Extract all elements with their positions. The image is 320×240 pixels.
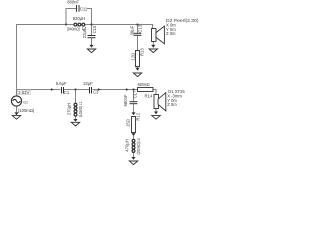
svg-text:22µF: 22µF: [82, 28, 87, 38]
svg-text:39µF: 39µF: [129, 25, 134, 35]
svg-text:R14: R14: [145, 93, 153, 98]
svg-text:C13: C13: [138, 24, 143, 32]
svg-text:(100mΩ): (100mΩ): [18, 108, 35, 113]
svg-text:(840mΩ): (840mΩ): [67, 27, 80, 32]
svg-text:680nF: 680nF: [67, 0, 79, 5]
svg-text:R12: R12: [135, 112, 140, 120]
svg-text:820µH: 820µH: [73, 16, 85, 21]
svg-text:C1: C1: [64, 90, 70, 95]
svg-text:470µH: 470µH: [125, 139, 130, 151]
svg-text:22µF: 22µF: [83, 81, 93, 86]
svg-text:(280mΩ) L6: (280mΩ) L6: [136, 138, 141, 155]
svg-text:C11: C11: [80, 7, 88, 12]
svg-text:C17: C17: [133, 90, 138, 98]
svg-text:15Ω: 15Ω: [126, 119, 131, 127]
svg-text:12Ω: 12Ω: [130, 53, 135, 61]
svg-text:C3: C3: [93, 90, 99, 95]
svg-text:(440mΩ) L1: (440mΩ) L1: [78, 101, 83, 117]
svg-text:Z 0m: Z 0m: [167, 102, 177, 107]
svg-text:270µH: 270µH: [67, 103, 72, 115]
svg-text:Z 0m: Z 0m: [166, 31, 176, 36]
svg-text:G1: G1: [23, 100, 28, 104]
svg-text:5.6µF: 5.6µF: [56, 81, 67, 86]
svg-text:C15: C15: [92, 25, 97, 33]
svg-text:680nF: 680nF: [123, 94, 128, 106]
svg-text:680mΩ: 680mΩ: [138, 82, 150, 87]
svg-text:R13: R13: [140, 48, 145, 56]
svg-text:2.83V: 2.83V: [18, 90, 29, 95]
